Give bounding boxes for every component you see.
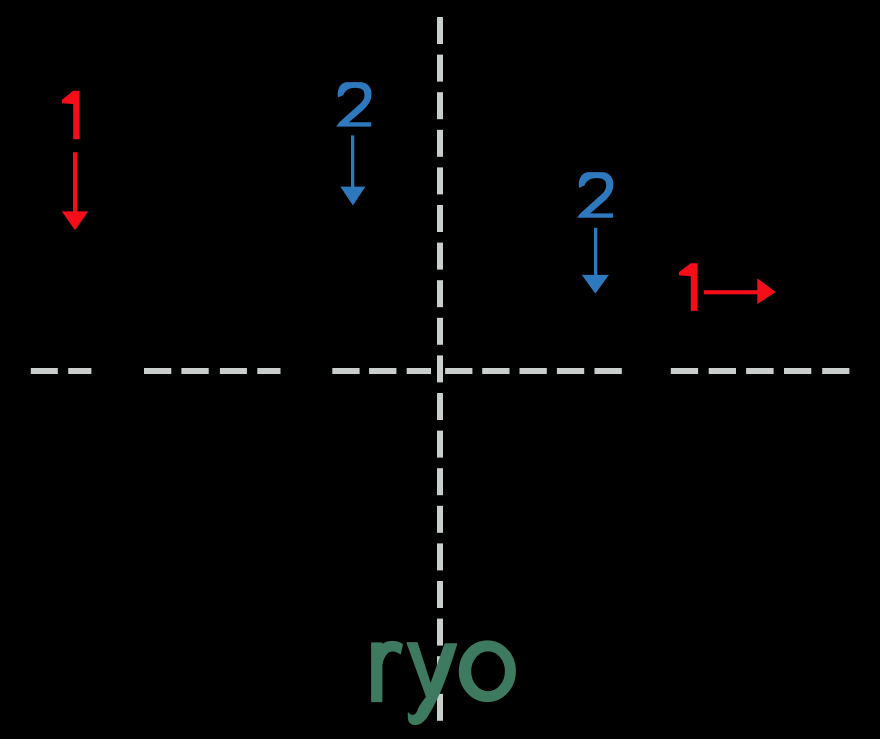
label 2 (blue, right of center) (577, 172, 613, 218)
letter y (407, 643, 456, 725)
letter r (372, 642, 402, 702)
letter o (460, 641, 516, 701)
red down arrow (62, 152, 88, 230)
horizontal dashed axis (31, 368, 850, 374)
label ryo (green, bottom center) (372, 641, 515, 724)
blue down arrow 2 (582, 228, 609, 294)
label 1 (red, right) (679, 263, 698, 311)
label 2 (blue, upper middle) (336, 82, 371, 127)
blue down arrow (340, 135, 365, 205)
red right arrow (704, 278, 776, 304)
vertical dashed axis (437, 17, 443, 721)
label 1 (red, top-left) (62, 91, 80, 139)
